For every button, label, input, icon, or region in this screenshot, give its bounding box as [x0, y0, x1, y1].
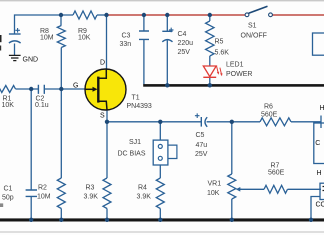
svg-text:ON/OFF: ON/OFF: [241, 33, 267, 40]
svg-text:D: D: [100, 60, 105, 67]
svg-text:47u: 47u: [196, 142, 208, 149]
svg-text:0.1u: 0.1u: [35, 102, 49, 109]
svg-text:GND: GND: [23, 57, 39, 64]
svg-text:PN4393: PN4393: [127, 103, 152, 110]
svg-text:10K: 10K: [2, 102, 15, 109]
svg-text:10M: 10M: [40, 35, 54, 42]
svg-text:LED1: LED1: [226, 62, 244, 69]
svg-text:5.6K: 5.6K: [215, 50, 230, 57]
svg-text:R5: R5: [215, 39, 224, 46]
svg-text:25V: 25V: [178, 49, 191, 56]
svg-text:H: H: [320, 105, 324, 112]
svg-text:C4: C4: [178, 31, 187, 38]
svg-text:10M: 10M: [37, 194, 51, 201]
svg-text:S1: S1: [248, 23, 257, 30]
svg-text:T1: T1: [132, 95, 140, 102]
svg-text:50p: 50p: [2, 195, 14, 202]
svg-text:10K: 10K: [207, 190, 220, 197]
svg-text:10K: 10K: [78, 35, 91, 42]
svg-text:H: H: [317, 170, 322, 177]
svg-text:R6: R6: [264, 104, 273, 111]
svg-text:R3: R3: [86, 185, 95, 192]
svg-text:3.9K: 3.9K: [84, 194, 99, 201]
svg-text:25V: 25V: [195, 151, 208, 158]
svg-text:C: C: [315, 140, 320, 147]
svg-text:33n: 33n: [120, 41, 132, 48]
svg-text:DC BIAS: DC BIAS: [118, 151, 146, 158]
svg-text:SJ1: SJ1: [129, 139, 141, 146]
svg-text:G: G: [73, 82, 78, 89]
svg-text:S: S: [100, 113, 105, 120]
svg-text:R4: R4: [138, 185, 147, 192]
svg-text:R7: R7: [271, 163, 280, 170]
svg-text:VR1: VR1: [208, 181, 222, 188]
svg-text:C1: C1: [4, 186, 13, 193]
svg-text:560E: 560E: [268, 170, 285, 177]
svg-text:R2: R2: [38, 185, 47, 192]
svg-text:560E: 560E: [261, 112, 278, 119]
svg-text:3.9K: 3.9K: [137, 194, 152, 201]
svg-text:220u: 220u: [178, 40, 194, 47]
svg-text:POWER: POWER: [226, 71, 252, 78]
svg-text:C5: C5: [196, 132, 205, 139]
svg-text:C3: C3: [122, 33, 131, 40]
svg-text:CO: CO: [316, 202, 324, 209]
